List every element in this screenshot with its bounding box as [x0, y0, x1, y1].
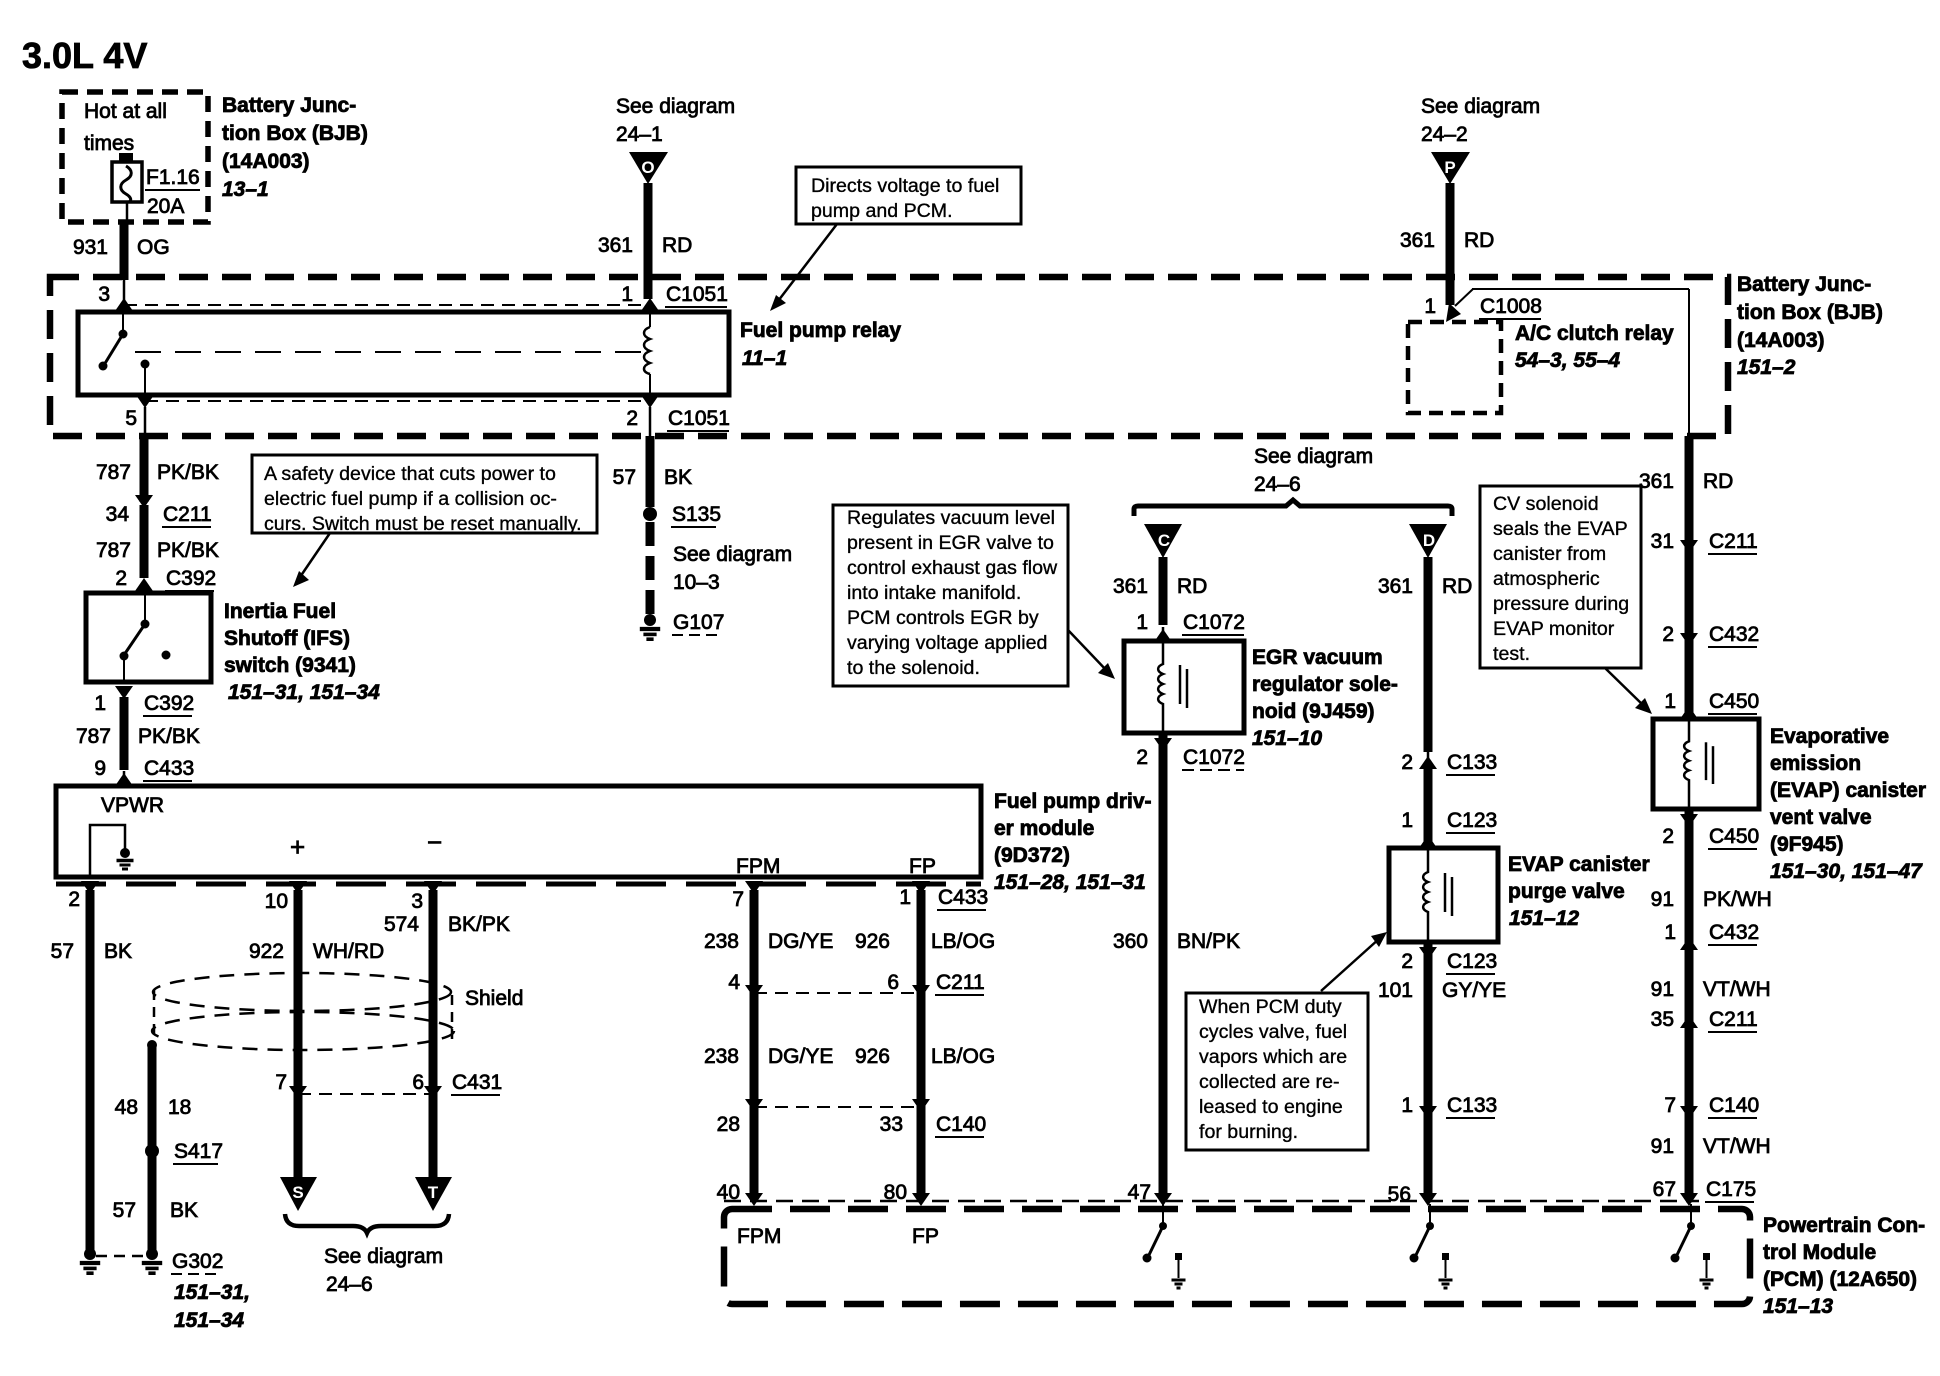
callout regulates vacuum: [833, 505, 1068, 686]
svg-text:VT/WH: VT/WH: [1703, 1135, 1771, 1158]
svg-text:361: 361: [1113, 575, 1148, 598]
svg-text:S: S: [292, 1183, 303, 1202]
label fuel pump driver module: [994, 790, 1152, 894]
arrow pin 2: [641, 395, 659, 408]
svg-text:56: 56: [1388, 1183, 1411, 1206]
svg-text:tion Box (BJB): tion Box (BJB): [1737, 301, 1883, 324]
svg-text:101: 101: [1378, 979, 1413, 1002]
svg-text:3.0L 4V: 3.0L 4V: [22, 35, 147, 76]
svg-text:vent valve: vent valve: [1770, 806, 1872, 829]
svg-text:See diagram: See diagram: [324, 1245, 443, 1268]
arrow 35 C211: [1651, 1008, 1758, 1032]
svg-text:34: 34: [106, 503, 130, 526]
svg-text:C1072: C1072: [1183, 611, 1245, 634]
svg-text:18: 18: [168, 1096, 191, 1119]
arrow 2 C450: [1662, 814, 1759, 849]
connector line C1051 bottom: [145, 400, 650, 402]
svg-text:EVAP canister: EVAP canister: [1508, 853, 1650, 876]
arrow from safety callout: [293, 533, 330, 587]
svg-text:238: 238: [704, 930, 739, 953]
callout CV solenoid: [1480, 486, 1641, 668]
wire 361 RD from D: [1378, 557, 1472, 752]
svg-text:C450: C450: [1709, 690, 1759, 713]
wire 787 PK/BK third: [76, 697, 200, 770]
svg-text:151–31, 151–34: 151–31, 151–34: [228, 681, 380, 704]
pin 2 C1051 label: [626, 407, 730, 436]
svg-text:931: 931: [73, 236, 108, 259]
svg-text:(14A003): (14A003): [222, 150, 310, 173]
wire 361 RD from O: [598, 183, 692, 299]
svg-text:C432: C432: [1709, 921, 1759, 944]
svg-text:C211: C211: [1709, 1008, 1758, 1031]
wire pin 3 into relay: [98, 278, 124, 312]
A/C clutch relay dashed box: [1408, 322, 1501, 413]
svg-text:When PCM duty: When PCM duty: [1199, 996, 1342, 1018]
IFS switch symbol: [120, 593, 171, 682]
svg-text:33: 33: [880, 1113, 903, 1136]
svg-text:24–6: 24–6: [1254, 473, 1301, 496]
pin 3 arrow: [411, 881, 442, 913]
svg-text:canister from: canister from: [1493, 543, 1606, 565]
connector T triangle: [415, 1177, 452, 1211]
svg-text:S135: S135: [672, 503, 721, 526]
wire 574 BK/PK: [384, 890, 510, 1178]
fuel pump relay box: [78, 312, 729, 395]
svg-text:6: 6: [887, 971, 899, 994]
svg-text:20A: 20A: [147, 195, 184, 218]
svg-text:noid (9J459): noid (9J459): [1252, 700, 1375, 723]
see diagram 24-2: [1421, 95, 1540, 146]
svg-text:RD: RD: [1442, 575, 1472, 598]
svg-text:151–31,: 151–31,: [174, 1281, 250, 1304]
wire 238 DG/YE lower label: [704, 1045, 833, 1068]
svg-text:2: 2: [626, 407, 638, 430]
powertrain control module dashed box: [724, 1209, 1750, 1304]
dashed link to G302: [96, 1255, 146, 1258]
arrow 1 C432: [1664, 921, 1759, 950]
svg-text:238: 238: [704, 1045, 739, 1068]
svg-text:926: 926: [855, 1045, 890, 1068]
svg-text:OG: OG: [137, 236, 170, 259]
svg-text:67: 67: [1653, 1178, 1676, 1201]
svg-text:FP: FP: [912, 1225, 939, 1248]
label Battery Junction Box top: [222, 94, 368, 201]
arrow 34 C211: [106, 495, 212, 527]
svg-text:C431: C431: [452, 1071, 502, 1094]
hot at all times fuse box: [62, 92, 208, 222]
arrow 1 C392: [94, 686, 194, 716]
svg-text:PCM controls EGR by: PCM controls EGR by: [847, 607, 1039, 629]
svg-text:1: 1: [1136, 611, 1148, 634]
bracket over C and D: [1134, 500, 1452, 516]
svg-text:D: D: [1423, 531, 1435, 550]
relay coil: [644, 312, 650, 395]
brace under S T: [285, 1214, 449, 1233]
relay internal dashed link: [135, 351, 644, 353]
svg-text:C1072: C1072: [1183, 746, 1245, 769]
arrow 1 C123: [1401, 809, 1497, 848]
svg-text:C133: C133: [1447, 751, 1497, 774]
connector C triangle: [1144, 524, 1182, 558]
connector line C140: [717, 1099, 987, 1137]
wire 91 VT/WH: [1651, 978, 1771, 1001]
svg-text:2: 2: [1136, 746, 1148, 769]
svg-text:C123: C123: [1447, 950, 1497, 973]
wire to purge valve: [1424, 768, 1433, 848]
svg-text:Hot at all: Hot at all: [84, 100, 167, 123]
svg-text:361: 361: [1378, 575, 1413, 598]
svg-text:3: 3: [411, 890, 423, 913]
arrow from CV solenoid callout: [1605, 668, 1652, 714]
ground G107: [640, 611, 725, 639]
svg-text:VPWR: VPWR: [101, 794, 164, 817]
svg-text:cycles valve, fuel: cycles valve, fuel: [1199, 1021, 1347, 1043]
svg-text:7: 7: [275, 1071, 287, 1094]
pin 1 C1051 label: [621, 283, 728, 307]
svg-text:FPM: FPM: [736, 855, 780, 878]
svg-text:361: 361: [598, 234, 633, 257]
see diagram 10-3: [673, 543, 792, 594]
svg-text:787: 787: [96, 461, 131, 484]
svg-text:2: 2: [1662, 623, 1674, 646]
pin 1 arrow C433: [899, 881, 988, 910]
svg-text:RD: RD: [1177, 575, 1207, 598]
svg-text:FPM: FPM: [737, 1225, 781, 1248]
arrow from regulates callout: [1068, 630, 1115, 679]
svg-text:91: 91: [1651, 978, 1674, 1001]
svg-text:24–2: 24–2: [1421, 123, 1468, 146]
svg-text:er module: er module: [994, 817, 1094, 840]
label evaporative emission vent valve: [1770, 725, 1926, 883]
svg-text:varying voltage applied: varying voltage applied: [847, 632, 1047, 654]
svg-text:EGR vacuum: EGR vacuum: [1252, 646, 1383, 669]
svg-text:(14A003): (14A003): [1737, 329, 1825, 352]
see diagram 24-1: [616, 95, 735, 146]
PCM switch 56: [1410, 1204, 1453, 1288]
svg-text:See diagram: See diagram: [673, 543, 792, 566]
callout when PCM duty cycles: [1186, 993, 1368, 1150]
svg-text:collected are re-: collected are re-: [1199, 1071, 1340, 1093]
svg-text:leased to engine: leased to engine: [1199, 1096, 1343, 1118]
arrow 2 C133: [1401, 751, 1497, 775]
svg-text:Evaporative: Evaporative: [1770, 725, 1889, 748]
svg-text:361: 361: [1639, 470, 1674, 493]
PCM switch 47: [1143, 1204, 1186, 1288]
connector S triangle: [280, 1177, 317, 1211]
svg-text:Directs voltage to fuel: Directs voltage to fuel: [811, 175, 999, 197]
PCM connector dashed line: [724, 1200, 1699, 1203]
wire 91 VT/WH lower: [1651, 1135, 1771, 1158]
svg-text:test.: test.: [1493, 643, 1530, 665]
svg-text:present in EGR valve to: present in EGR valve to: [847, 532, 1054, 554]
fuel pump driver module box: [56, 786, 981, 877]
relay switch: [99, 312, 150, 395]
svg-text:S417: S417: [174, 1140, 223, 1163]
svg-text:regulator sole-: regulator sole-: [1252, 673, 1398, 696]
svg-text:151–13: 151–13: [1763, 1295, 1833, 1318]
wire 931 OG: [73, 222, 170, 280]
ground G302: [142, 1248, 250, 1332]
arrow 2 C432: [1662, 623, 1759, 647]
connector line C433 below FPDM: [56, 882, 981, 887]
svg-text:1: 1: [1664, 690, 1676, 713]
svg-text:A safety device that cuts powe: A safety device that cuts power to: [264, 463, 556, 485]
arrow pin 80: [912, 1193, 930, 1206]
see diagram 24-6 bottom: [324, 1245, 443, 1296]
svg-text:control exhaust gas flow: control exhaust gas flow: [847, 557, 1058, 579]
wire 787 PK/BK second: [96, 505, 219, 578]
arrow pin 5: [136, 395, 154, 408]
svg-text:See diagram: See diagram: [616, 95, 735, 118]
svg-text:FP: FP: [909, 855, 936, 878]
label EGR vacuum regulator solenoid: [1252, 646, 1398, 750]
svg-text:+: +: [290, 832, 305, 862]
svg-text:BK/PK: BK/PK: [448, 913, 510, 936]
arrow 7 C140: [1664, 1094, 1759, 1119]
svg-text:48: 48: [115, 1096, 138, 1119]
svg-text:BN/PK: BN/PK: [1177, 930, 1240, 953]
svg-text:2: 2: [115, 567, 127, 590]
svg-text:C1008: C1008: [1480, 295, 1542, 318]
wire 360 BN/PK: [1113, 733, 1240, 1198]
pin 10 arrow: [265, 881, 307, 913]
arrow C1008: [1446, 303, 1461, 322]
svg-text:Inertia Fuel: Inertia Fuel: [224, 600, 336, 623]
arrow 1 C1072: [1136, 611, 1245, 642]
label powertrain control module: [1763, 1214, 1925, 1318]
svg-text:P: P: [1444, 158, 1455, 177]
svg-text:C140: C140: [1709, 1094, 1759, 1117]
svg-text:2: 2: [1401, 751, 1413, 774]
svg-text:91: 91: [1651, 1135, 1674, 1158]
svg-text:9: 9: [94, 757, 106, 780]
connector O triangle: [629, 152, 668, 184]
svg-text:926: 926: [855, 930, 890, 953]
arrow pin 56: [1419, 1193, 1437, 1206]
svg-text:1: 1: [1401, 1094, 1413, 1117]
svg-text:57: 57: [613, 466, 636, 489]
svg-text:C450: C450: [1709, 825, 1759, 848]
svg-text:360: 360: [1113, 930, 1148, 953]
svg-text:tion Box (BJB): tion Box (BJB): [222, 122, 368, 145]
wire FP 926 LB/OG upper: [855, 890, 995, 1198]
svg-text:Fuel pump relay: Fuel pump relay: [740, 319, 901, 342]
svg-text:1: 1: [621, 283, 633, 306]
svg-text:5: 5: [125, 407, 137, 430]
wire 57 BK drain: [113, 1199, 198, 1222]
arrow from directs voltage callout: [770, 224, 837, 311]
svg-text:1: 1: [1664, 921, 1676, 944]
shield ellipses: [152, 973, 454, 1050]
PCM switch 67: [1671, 1204, 1714, 1288]
svg-text:electric fuel pump if a collis: electric fuel pump if a collision oc-: [264, 488, 557, 510]
svg-text:C433: C433: [144, 757, 194, 780]
svg-text:7: 7: [732, 888, 744, 911]
svg-text:54–3, 55–4: 54–3, 55–4: [1515, 349, 1620, 372]
svg-text:to the solenoid.: to the solenoid.: [847, 657, 980, 679]
arrow 2 C1072: [1136, 738, 1245, 770]
svg-text:switch (9341): switch (9341): [224, 654, 356, 677]
EVAP canister purge valve box: [1389, 848, 1498, 942]
svg-text:C211: C211: [163, 503, 212, 526]
svg-text:PK/WH: PK/WH: [1703, 888, 1772, 911]
fuse F1.16 20A: [112, 153, 200, 222]
svg-text:C1051: C1051: [666, 283, 728, 306]
label inertia fuel shutoff: [224, 600, 380, 704]
svg-text:seals the EVAP: seals the EVAP: [1493, 518, 1628, 540]
svg-text:1: 1: [1401, 809, 1413, 832]
svg-text:151–34: 151–34: [174, 1309, 244, 1332]
svg-text:(PCM) (12A650): (PCM) (12A650): [1763, 1268, 1917, 1291]
svg-text:BK: BK: [170, 1199, 198, 1222]
svg-text:RD: RD: [662, 234, 692, 257]
svg-text:151–2: 151–2: [1737, 356, 1796, 379]
svg-text:C123: C123: [1447, 809, 1497, 832]
svg-text:151–28, 151–31: 151–28, 151–31: [994, 871, 1146, 894]
svg-text:T: T: [428, 1183, 439, 1202]
svg-text:922: 922: [249, 940, 284, 963]
svg-text:A/C clutch relay: A/C clutch relay: [1515, 322, 1674, 345]
svg-text:(EVAP) canister: (EVAP) canister: [1770, 779, 1926, 802]
svg-text:PK/BK: PK/BK: [138, 725, 200, 748]
wire 361 RD from P: [1400, 183, 1494, 305]
EGR vacuum regulator solenoid box: [1124, 641, 1244, 733]
arrow pin 40: [745, 1193, 763, 1206]
svg-text:C175: C175: [1706, 1178, 1756, 1201]
connector line C431: [275, 1071, 502, 1099]
svg-text:F1.16: F1.16: [146, 166, 200, 189]
arrow pin 3: [115, 298, 133, 311]
pin 5 label: [125, 407, 145, 436]
pin 7 arrow: [732, 881, 763, 911]
svg-text:3: 3: [98, 283, 110, 306]
wire 101 GY/YE: [1378, 942, 1506, 1198]
svg-text:10: 10: [265, 890, 288, 913]
svg-text:C211: C211: [1709, 530, 1758, 553]
svg-text:6: 6: [412, 1071, 424, 1094]
svg-text:See diagram: See diagram: [1254, 445, 1373, 468]
FPDM internal ground: [90, 825, 134, 877]
wire 91 PK/WH: [1651, 809, 1772, 1198]
pin 1 C1008 label: [1424, 295, 1542, 319]
shield drain wire: [115, 1040, 192, 1250]
svg-text:28: 28: [717, 1113, 740, 1136]
svg-text:787: 787: [96, 539, 131, 562]
wire 361 RD from C: [1113, 557, 1207, 625]
splice S135: [643, 503, 721, 527]
dashed wire to G107: [646, 522, 655, 614]
svg-text:atmospheric: atmospheric: [1493, 568, 1600, 590]
svg-text:151–30, 151–47: 151–30, 151–47: [1770, 860, 1923, 883]
svg-text:VT/WH: VT/WH: [1703, 978, 1771, 1001]
svg-text:PK/BK: PK/BK: [157, 461, 219, 484]
wire 926 LB/OG lower label: [855, 1045, 995, 1068]
connector P triangle: [1431, 152, 1470, 184]
arrow pin 1: [641, 298, 659, 311]
wire 57 BK left: [51, 890, 132, 1252]
svg-text:1: 1: [899, 886, 911, 909]
svg-text:2: 2: [1662, 825, 1674, 848]
inertia fuel shutoff switch box: [86, 593, 211, 682]
ground left of G302: [80, 1248, 100, 1273]
svg-text:57: 57: [113, 1199, 136, 1222]
connector line C1051 top: [124, 304, 650, 306]
svg-text:C133: C133: [1447, 1094, 1497, 1117]
svg-text:CV solenoid: CV solenoid: [1493, 493, 1599, 515]
svg-text:vapors which are: vapors which are: [1199, 1046, 1347, 1068]
svg-text:1: 1: [94, 692, 106, 715]
svg-text:Battery Junc-: Battery Junc-: [1737, 273, 1871, 296]
svg-text:pump and PCM.: pump and PCM.: [811, 200, 953, 222]
svg-text:4: 4: [728, 971, 740, 994]
svg-text:91: 91: [1651, 888, 1674, 911]
svg-text:C: C: [1158, 531, 1170, 550]
svg-text:(9F945): (9F945): [1770, 833, 1844, 856]
callout safety device: [252, 455, 597, 535]
svg-text:Powertrain Con-: Powertrain Con-: [1763, 1214, 1925, 1237]
arrow 9 C433: [94, 757, 194, 786]
arrow 2 C123: [1401, 947, 1497, 974]
connector D triangle: [1409, 524, 1447, 558]
label EVAP canister purge valve: [1508, 853, 1650, 930]
svg-text:(9D372): (9D372): [994, 844, 1070, 867]
svg-text:57: 57: [51, 940, 74, 963]
svg-text:into intake manifold.: into intake manifold.: [847, 582, 1021, 604]
svg-text:35: 35: [1651, 1008, 1674, 1031]
svg-text:7: 7: [1664, 1094, 1676, 1117]
svg-text:24–1: 24–1: [616, 123, 663, 146]
arrow 1 C450: [1664, 690, 1759, 719]
svg-text:−: −: [427, 827, 442, 857]
battery junction box BJB dashed outline: [50, 277, 1728, 436]
svg-text:C211: C211: [936, 971, 985, 994]
svg-text:EVAP monitor: EVAP monitor: [1493, 618, 1615, 640]
svg-text:Shield: Shield: [465, 987, 523, 1010]
svg-text:O: O: [641, 158, 654, 177]
wire 361 RD right: [1639, 436, 1733, 719]
label A/C clutch relay: [1515, 322, 1674, 372]
svg-text:DG/YE: DG/YE: [768, 930, 833, 953]
svg-text:Battery Junc-: Battery Junc-: [222, 94, 356, 117]
pin 67 C175 label: [1653, 1178, 1757, 1202]
arrow pin 47: [1154, 1193, 1172, 1206]
svg-text:Shutoff (IFS): Shutoff (IFS): [224, 627, 350, 650]
svg-text:31: 31: [1651, 530, 1674, 553]
svg-text:C392: C392: [144, 692, 194, 715]
svg-text:C433: C433: [938, 886, 988, 909]
svg-text:2: 2: [68, 888, 80, 911]
svg-text:11–1: 11–1: [742, 347, 787, 370]
svg-text:pressure during: pressure during: [1493, 593, 1629, 615]
svg-text:for burning.: for burning.: [1199, 1121, 1298, 1143]
svg-text:BK: BK: [664, 466, 692, 489]
svg-text:See diagram: See diagram: [1421, 95, 1540, 118]
svg-text:574: 574: [384, 913, 419, 936]
svg-text:emission: emission: [1770, 752, 1861, 775]
svg-text:G107: G107: [673, 611, 724, 634]
svg-text:13–1: 13–1: [222, 178, 269, 201]
svg-text:LB/OG: LB/OG: [931, 1045, 995, 1068]
svg-text:Fuel pump driv-: Fuel pump driv-: [994, 790, 1152, 813]
arrow pin 67: [1680, 1193, 1698, 1206]
svg-text:1: 1: [1424, 295, 1436, 318]
svg-text:C140: C140: [936, 1113, 986, 1136]
wire 787 PK/BK first: [96, 436, 219, 502]
svg-text:GY/YE: GY/YE: [1442, 979, 1506, 1002]
see diagram 24-6 top: [1254, 445, 1373, 496]
svg-text:151–10: 151–10: [1252, 727, 1322, 750]
label fuel pump relay: [740, 319, 901, 370]
